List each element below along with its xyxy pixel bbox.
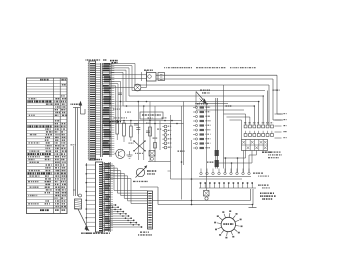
- label P602: [90, 159, 92, 160]
- wire net B: [156, 78, 273, 80]
- label P603: [273, 90, 274, 91]
- terminal ladder TB603: [103, 162, 114, 232]
- wire net K: [140, 187, 158, 205]
- connector P601 pins: [88, 63, 95, 159]
- tiny labels center zone: [113, 109, 166, 144]
- wire to chassis ground: [78, 209, 91, 234]
- notes text line: [164, 67, 256, 68]
- relay K602 contact row upper: [244, 122, 273, 136]
- vertical wires center: [138, 102, 160, 162]
- label TB602: [197, 103, 199, 104]
- resistor R602: [123, 121, 126, 143]
- wire steps into relay grids: [224, 114, 250, 140]
- label wire pair: [178, 151, 180, 152]
- terminal column TB602: [193, 106, 211, 149]
- terminal circles column E601: [162, 125, 171, 149]
- wire net P stub: [249, 204, 257, 208]
- wire vertical x191: [191, 140, 193, 205]
- wire mid vertical 223: [223, 85, 225, 169]
- text block coil note: [260, 193, 276, 200]
- relay K603 contact table with crosses: [242, 140, 268, 151]
- connector J603: [148, 191, 153, 229]
- relay K601: [111, 70, 165, 82]
- wire net D: [132, 90, 265, 92]
- connector P602 pins: [99, 164, 103, 231]
- capacitor C601: [136, 122, 140, 134]
- phone jack J602: [196, 90, 210, 108]
- mark above terminal board: [110, 60, 118, 64]
- transistor Q601: [114, 149, 125, 158]
- relay pin stubs and labels: [275, 113, 287, 138]
- wire horizontal bus mid: [111, 102, 184, 125]
- wire net J long: [171, 178, 243, 180]
- wire bundle to bus: [111, 82, 121, 121]
- wire net G: [123, 105, 254, 107]
- resistor R605: [154, 143, 157, 149]
- wire net F: [126, 101, 259, 103]
- terminal strip E603 comb row: [199, 182, 270, 188]
- boxed label terminal strip: [140, 112, 163, 119]
- capacitor C602: [134, 123, 138, 125]
- wire right vertical drops: [254, 75, 283, 126]
- terminal board TB601 rails: [101, 63, 111, 157]
- lamp DS601: [111, 84, 147, 91]
- terminal board TB601 rungs: [96, 63, 115, 157]
- label T601: [110, 121, 111, 123]
- junction dots top bus: [120, 101, 148, 107]
- capacitor C603: [146, 131, 150, 133]
- switch S202 cross: [133, 140, 146, 154]
- capacitor C605: [118, 93, 122, 95]
- label cinch jones: [138, 232, 152, 236]
- rotary switch S201 view symbol: [136, 165, 148, 177]
- wire jack out: [195, 103, 228, 105]
- wire jack vertical: [206, 104, 208, 191]
- junction dots right bus: [254, 95, 264, 107]
- inductor L601: [75, 199, 82, 209]
- wire net N: [158, 189, 253, 205]
- wire net H: [148, 115, 171, 179]
- wire net G2: [196, 109, 244, 111]
- text block relay note: [262, 152, 282, 159]
- wire rows strip to grid with end dots: [110, 204, 142, 228]
- junction dot diagonal second: [112, 206, 134, 225]
- arrow shield drain: [79, 101, 85, 114]
- relay contact box K604: [149, 151, 155, 161]
- ground symbol G1: [127, 151, 133, 159]
- wire fan nested elbows to J603: [110, 166, 147, 204]
- wire vertical x181: [181, 102, 184, 200]
- connector P601 shell: [89, 61, 96, 160]
- label amphenol lower: [86, 233, 88, 234]
- wires from contact table down left: [218, 151, 252, 164]
- cable W602: [207, 98, 219, 169]
- parts list table: [27, 78, 68, 214]
- label S201 viewed from: [133, 170, 156, 182]
- wire left bus x86: [85, 163, 87, 231]
- wires relay to terminal circles: [225, 151, 257, 173]
- wire bundle to right nets: [111, 64, 135, 107]
- wire ground bus W603: [71, 104, 82, 198]
- resistor R603: [130, 121, 133, 142]
- resistor R601: [116, 121, 119, 141]
- junction dots center: [116, 101, 155, 125]
- wire vertical x146: [146, 70, 148, 88]
- resistor R604: [149, 127, 152, 136]
- wire net C: [135, 84, 269, 86]
- label 5H: [226, 105, 227, 106]
- terminal strip E602 circles row: [199, 169, 269, 177]
- label on ground bus: [71, 144, 72, 145]
- tube socket XV601 view: [214, 210, 242, 238]
- label AMPHENOL connector: [86, 59, 107, 60]
- connector P602 left stubs: [86, 164, 96, 227]
- wire net A top: [156, 74, 277, 76]
- wire net M: [153, 189, 251, 201]
- wire net E: [129, 95, 262, 97]
- connector P602 shell: [96, 162, 103, 232]
- fuse F601 box: [204, 191, 210, 201]
